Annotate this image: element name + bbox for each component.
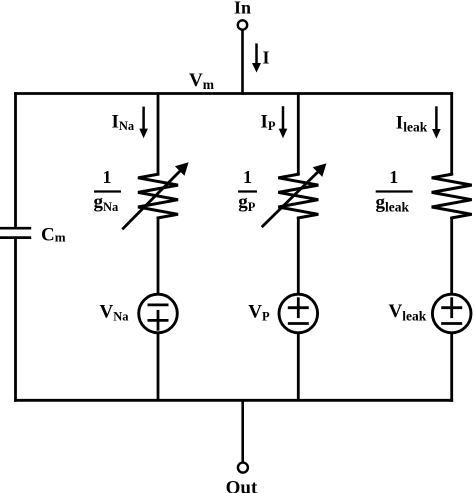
- wire Na branch lower: [157, 333, 160, 402]
- current arrow I: [252, 43, 261, 72]
- svg-text:1: 1: [243, 167, 252, 187]
- source V_Na: [139, 294, 178, 333]
- current arrow I_Na: [139, 107, 148, 139]
- label 1/g_P: [238, 167, 257, 214]
- svg-text:Out: Out: [226, 478, 258, 493]
- wire left edge upper: [14, 92, 17, 227]
- svg-text:I: I: [263, 48, 270, 68]
- source V_P: [279, 294, 318, 333]
- wire input: [241, 30, 244, 95]
- wire top rail: [14, 92, 453, 95]
- wire P branch upper: [297, 94, 300, 175]
- current arrow I_leak: [432, 106, 441, 138]
- svg-text:1: 1: [389, 167, 398, 187]
- wire Na branch middle: [157, 217, 160, 295]
- wire bottom rail: [14, 399, 453, 402]
- wire right edge upper: [450, 92, 453, 174]
- label 1/g_Na: [94, 167, 122, 214]
- wire right edge middle: [450, 217, 453, 295]
- wire output: [241, 400, 244, 462]
- wire P branch middle: [297, 217, 300, 295]
- resistor 1/g_P (variable): [262, 163, 327, 227]
- svg-text:1: 1: [103, 167, 112, 187]
- resistor 1/g_Na (variable): [122, 162, 188, 229]
- wire right edge lower: [450, 333, 453, 402]
- wire P branch lower: [297, 333, 300, 402]
- label 1/g_leak: [376, 167, 413, 215]
- source V_leak: [432, 294, 471, 333]
- node Out terminal: [238, 463, 248, 473]
- node In terminal: [238, 20, 247, 29]
- svg-text:In: In: [234, 0, 251, 18]
- wire Na branch upper: [157, 94, 160, 175]
- current arrow I_P: [279, 106, 288, 138]
- capacitor Cm: [0, 228, 31, 237]
- wire left edge lower: [14, 239, 17, 402]
- resistor 1/g_leak: [432, 173, 472, 219]
